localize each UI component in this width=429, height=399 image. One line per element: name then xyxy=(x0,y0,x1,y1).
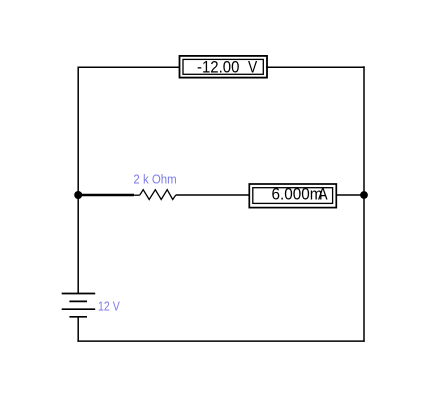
battery V1 plate 4 short (negative) xyxy=(69,316,87,318)
wire top-left (top node to voltmeter) xyxy=(78,66,181,68)
voltmeter U1 reading -12.00 V xyxy=(180,56,268,78)
wire middle thick (node A to resistor R1) xyxy=(78,194,134,197)
svg-text:2 k Ohm: 2 k Ohm xyxy=(133,172,176,187)
svg-text:6.000m: 6.000m xyxy=(272,185,323,203)
node B junction dot (right) xyxy=(360,191,368,199)
wire top-right (voltmeter to top-right corner) xyxy=(266,66,365,68)
svg-text:-12.00: -12.00 xyxy=(197,59,239,77)
battery V1 plate 3 long xyxy=(62,308,95,310)
wire bottom (bottom-left corner to bottom-right corner) xyxy=(77,340,364,342)
wire right vertical (top-right corner to bottom-right corner) xyxy=(363,66,365,341)
svg-text:A: A xyxy=(318,185,328,203)
wire resistor R1 to ammeter U2 xyxy=(176,194,250,196)
wire battery negative lead down to bottom-left corner xyxy=(77,317,79,342)
svg-text:V: V xyxy=(248,59,257,77)
battery V1 plate 2 short xyxy=(69,300,87,302)
ammeter U2 reading 6.000mA xyxy=(249,184,336,208)
battery V1 plate 1 long (positive) xyxy=(62,293,95,295)
resistor R1 zigzag xyxy=(140,190,176,200)
svg-text:12 V: 12 V xyxy=(98,300,120,314)
wire left vertical (top-left corner down to battery +) xyxy=(77,67,79,294)
node A junction dot (left) xyxy=(74,191,82,199)
wire ammeter U2 to node B xyxy=(336,194,365,196)
wire resistor R1 left lead xyxy=(134,194,140,196)
